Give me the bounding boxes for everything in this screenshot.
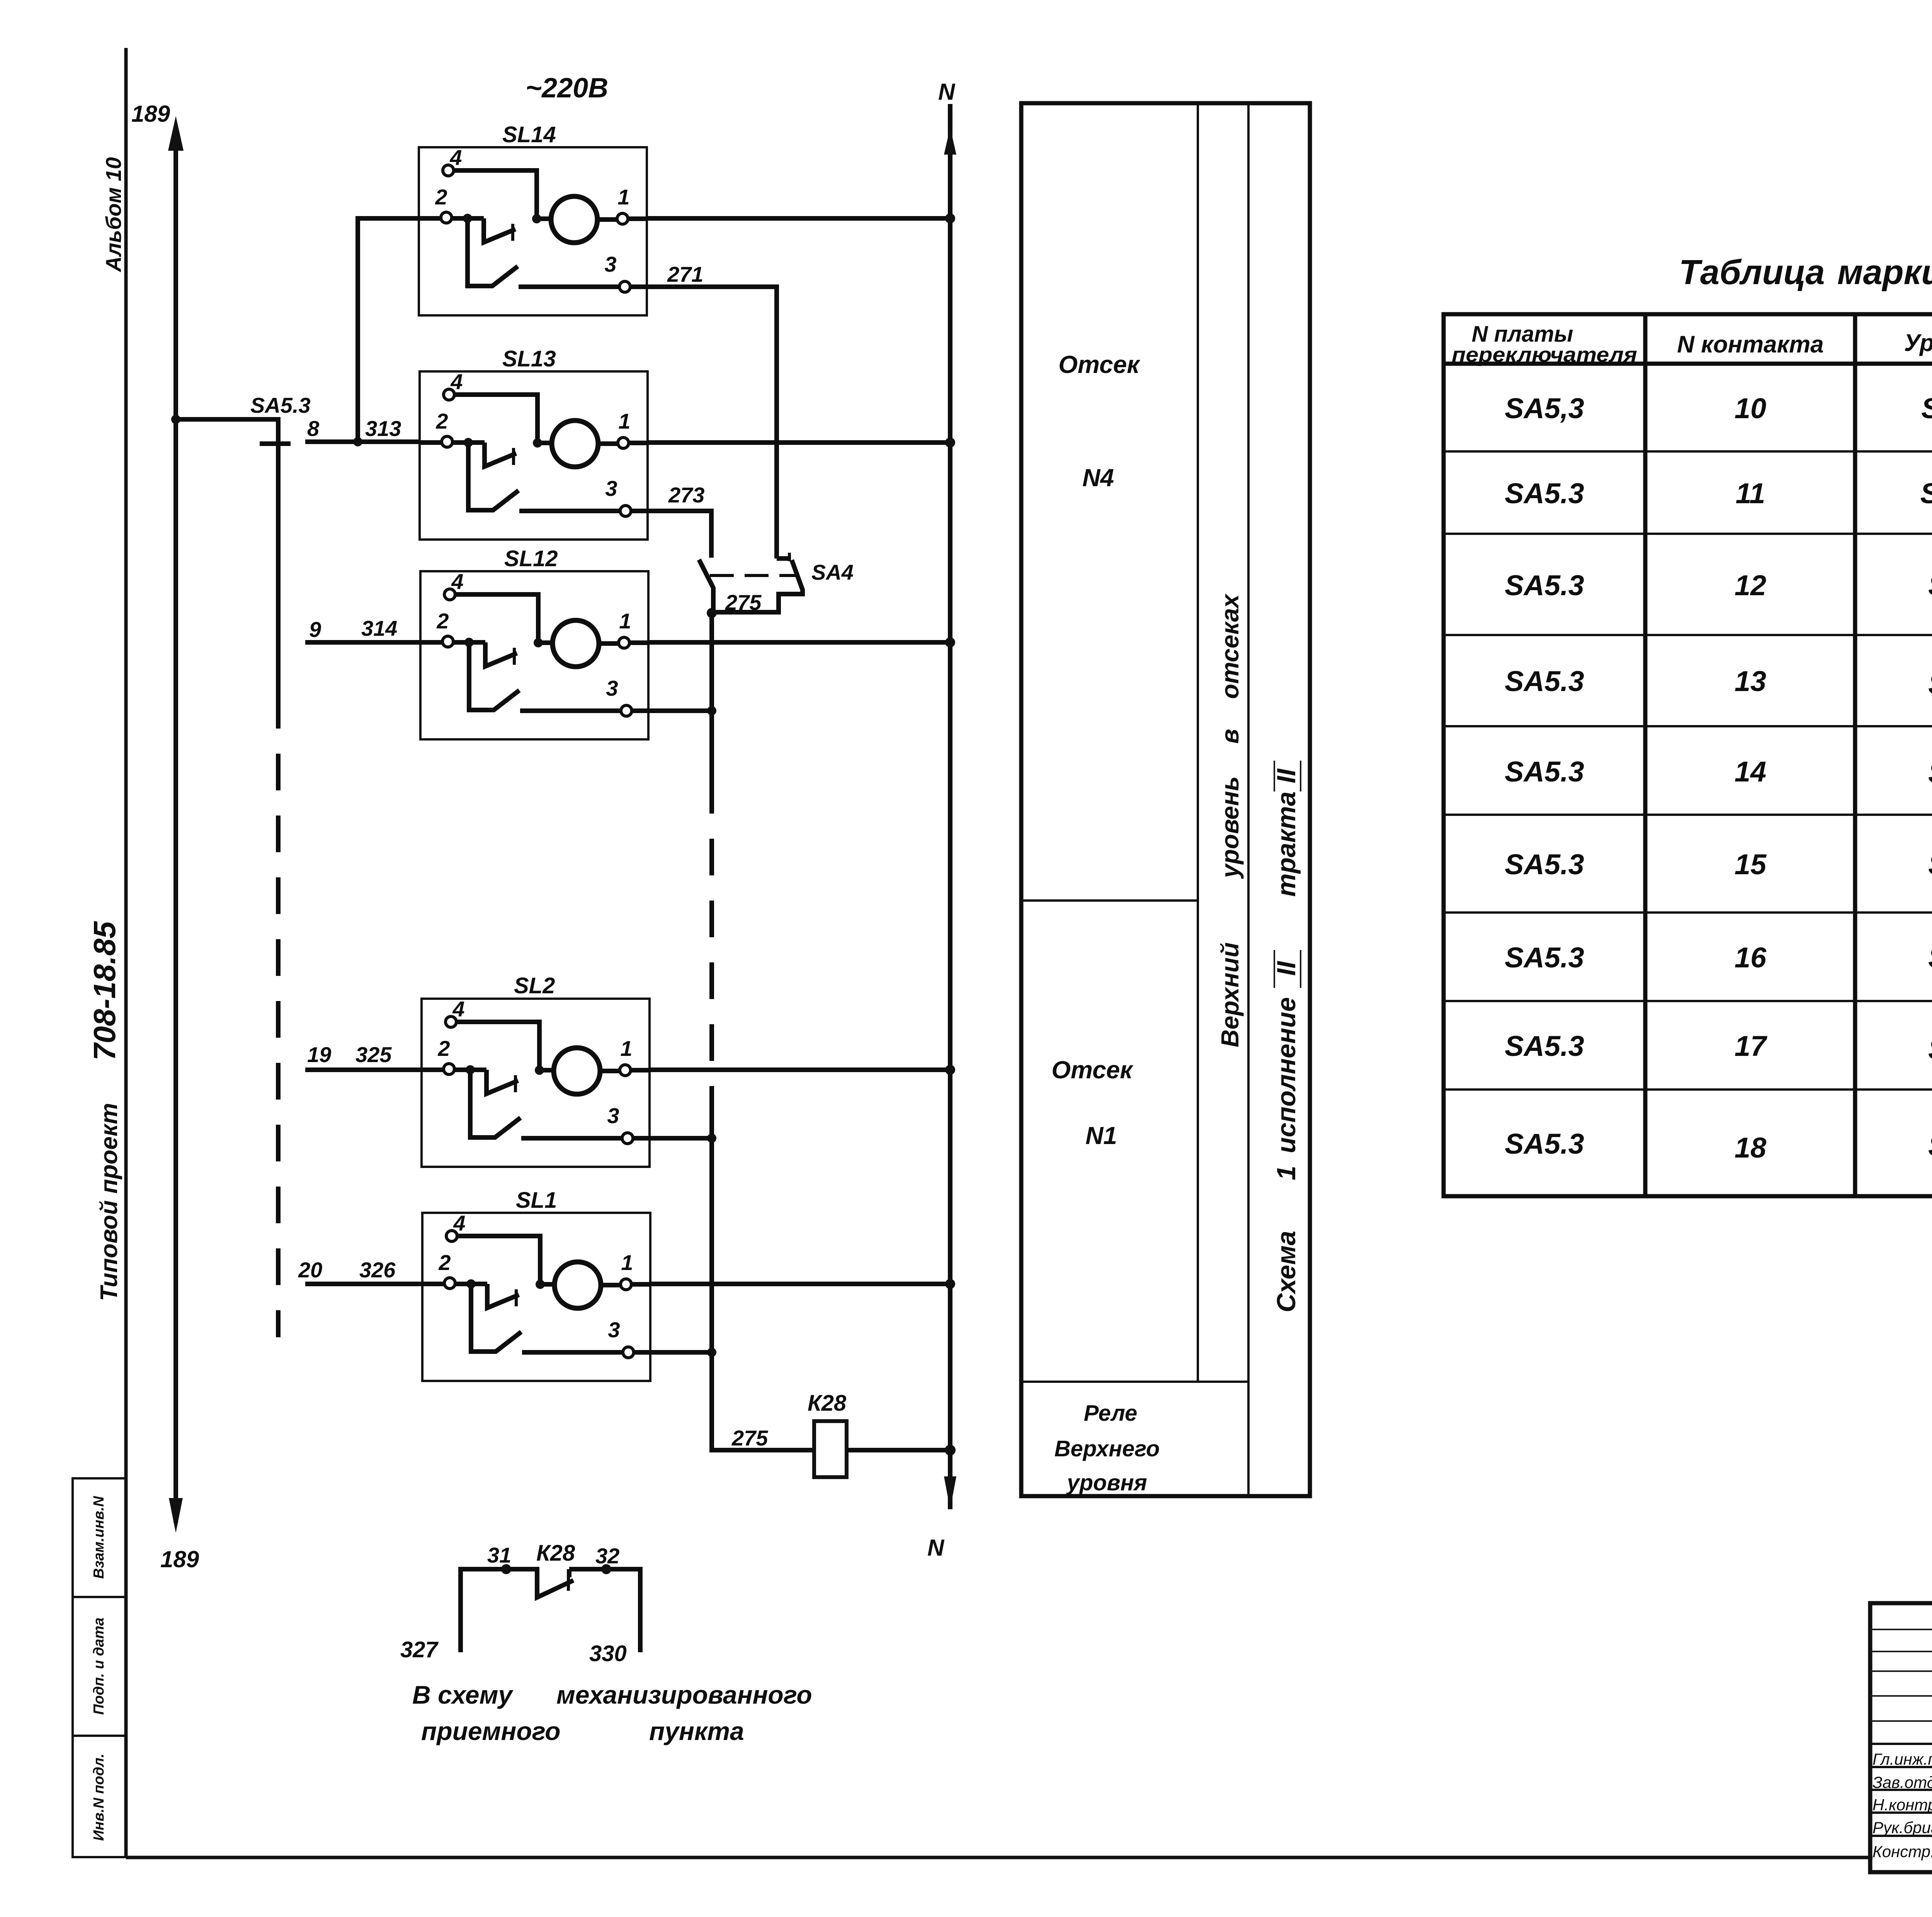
node 275	[707, 608, 717, 618]
svg-text:В схему: В схему	[412, 1680, 514, 1709]
svg-text:SL3: SL3	[1928, 1130, 1932, 1162]
lamp unit SL1	[422, 1188, 950, 1381]
arrow down	[169, 1498, 183, 1533]
wiper bar	[260, 441, 291, 446]
svg-text:SA5.3: SA5.3	[1505, 1128, 1584, 1160]
junction SL12 pin3	[707, 706, 716, 715]
svg-text:Гл.инж.пр.: Гл.инж.пр.	[1872, 1750, 1932, 1768]
svg-text:SL1: SL1	[516, 1188, 557, 1213]
svg-text:отсеках: отсеках	[1216, 593, 1244, 699]
svg-text:15: 15	[1735, 848, 1767, 880]
svg-text:189: 189	[131, 101, 170, 127]
svg-text:Верхнего: Верхнего	[1054, 1436, 1160, 1461]
svg-text:Альбом 10: Альбом 10	[101, 157, 126, 273]
svg-text:Констр.от.Фактурович: Констр.от.Фактурович	[1872, 1842, 1932, 1861]
svg-text:275: 275	[731, 1426, 768, 1450]
svg-text:SA4: SA4	[811, 560, 854, 584]
svg-text:II: II	[1272, 960, 1301, 976]
coupling dashes	[710, 574, 797, 577]
junction to SA5.3	[171, 415, 180, 424]
frame bottom border	[126, 1856, 1872, 1859]
svg-text:уровня: уровня	[1066, 1470, 1147, 1495]
left blade	[699, 560, 713, 612]
svg-text:SL11: SL11	[1921, 392, 1932, 424]
svg-text:Типовой проект: Типовой проект	[96, 1103, 122, 1301]
numeral marks	[1274, 761, 1301, 988]
svg-text:Уровень: Уровень	[1904, 330, 1932, 356]
svg-text:в: в	[1216, 729, 1244, 744]
right jog and tick	[777, 556, 789, 561]
divider otsek4 / otsek1	[1021, 899, 1198, 902]
divider otsek1 / rele	[1021, 1381, 1248, 1383]
svg-text:тракта: тракта	[1272, 792, 1301, 897]
svg-text:313: 313	[365, 416, 401, 441]
svg-text:Подп. и дата: Подп. и дата	[91, 1617, 107, 1715]
header bottom	[1444, 362, 1932, 366]
svg-text:Реле: Реле	[1084, 1401, 1137, 1426]
svg-text:N1: N1	[1085, 1122, 1117, 1149]
lamp unit SL14	[419, 122, 950, 315]
svg-text:11: 11	[1736, 477, 1765, 509]
arrow up	[168, 116, 184, 151]
svg-text:271: 271	[667, 262, 703, 286]
svg-text:Рук.бриг.: Рук.бриг.	[1872, 1818, 1932, 1837]
svg-text:~220В: ~220В	[526, 73, 608, 104]
column line 2	[1247, 103, 1250, 1496]
svg-text:Таблица: Таблица	[1679, 253, 1825, 292]
svg-text:SA5,3: SA5,3	[1505, 392, 1584, 424]
svg-text:31: 31	[487, 1543, 511, 1567]
relay coil K28	[808, 1391, 956, 1477]
wire 325 (tap 19)	[305, 1042, 422, 1070]
svg-text:19: 19	[307, 1042, 331, 1067]
svg-text:N4: N4	[1082, 464, 1114, 492]
compartment chart (Otsek N4 / N1 / relay)	[1021, 103, 1310, 1496]
stamp cell 1	[73, 1478, 126, 1597]
svg-text:SL12: SL12	[504, 546, 558, 571]
svg-text:SL10: SL10	[1920, 477, 1932, 509]
stamp cell 3	[73, 1736, 126, 1857]
svg-text:исполнение: исполнение	[1272, 997, 1301, 1153]
svg-text:SA5.3: SA5.3	[1505, 941, 1584, 974]
svg-text:N контакта: N контакта	[1677, 331, 1823, 358]
svg-text:SL4: SL4	[1928, 1033, 1932, 1065]
svg-text:314: 314	[361, 616, 397, 640]
svg-text:Отсек: Отсек	[1058, 351, 1141, 378]
svg-text:SA5.3: SA5.3	[1505, 1030, 1584, 1062]
svg-text:12: 12	[1735, 569, 1766, 601]
svg-text:17: 17	[1735, 1030, 1768, 1062]
svg-text:механизированного: механизированного	[556, 1680, 812, 1709]
stamp cell 2	[73, 1597, 126, 1736]
svg-text:326: 326	[359, 1258, 396, 1282]
svg-text:уровень: уровень	[1216, 776, 1244, 879]
svg-text:Взам.инв.N: Взам.инв.N	[91, 1496, 107, 1579]
svg-text:708-18.85: 708-18.85	[87, 921, 122, 1061]
svg-text:9: 9	[309, 617, 321, 642]
svg-text:II: II	[1272, 768, 1301, 783]
output to N	[647, 216, 950, 221]
svg-text:SA5.3: SA5.3	[1505, 477, 1584, 509]
svg-text:переключателя: переключателя	[1452, 343, 1637, 366]
svg-text:Схема: Схема	[1272, 1231, 1301, 1312]
column line 1	[1197, 103, 1199, 1382]
svg-text:SA5.3: SA5.3	[1505, 665, 1584, 697]
svg-text:20: 20	[298, 1258, 322, 1282]
svg-text:275: 275	[725, 590, 762, 615]
svg-text:SL9: SL9	[1928, 569, 1932, 601]
svg-text:Отсек: Отсек	[1051, 1056, 1134, 1084]
contact K28 (to remote circuit, wires 327/330)	[400, 1541, 812, 1745]
svg-text:327: 327	[400, 1637, 439, 1662]
left margin stamps	[73, 157, 126, 1857]
svg-text:Зав.отд.: Зав.отд.	[1872, 1773, 1932, 1791]
svg-text:Инв.N подл.: Инв.N подл.	[91, 1754, 107, 1841]
left part rows	[1870, 1629, 1932, 1721]
svg-text:приемного: приемного	[421, 1717, 561, 1745]
svg-text:К28: К28	[536, 1541, 575, 1566]
svg-text:16: 16	[1735, 941, 1767, 974]
frame left border	[124, 48, 128, 1857]
svg-text:13: 13	[1735, 665, 1766, 697]
feeder to switch	[176, 419, 278, 692]
switch SA4	[699, 553, 854, 618]
svg-text:маркировок: маркировок	[1837, 253, 1932, 292]
svg-text:1: 1	[1272, 1166, 1301, 1180]
svg-text:273: 273	[668, 483, 704, 507]
dashed continuation	[276, 692, 281, 1337]
svg-text:N: N	[938, 79, 956, 105]
marking table data cells	[1505, 390, 1932, 1164]
svg-text:SL13: SL13	[502, 346, 556, 371]
wire 189 vertical	[173, 128, 178, 1523]
svg-text:SL14: SL14	[502, 122, 556, 147]
switch SA5.3	[176, 393, 311, 1337]
junction SL1 pin3	[707, 1348, 716, 1357]
svg-text:пункта: пункта	[649, 1717, 744, 1745]
svg-text:SL5: SL5	[1928, 941, 1932, 974]
wire 313 (tap 8)	[305, 218, 420, 446]
svg-text:8: 8	[307, 416, 320, 441]
wire 273	[648, 483, 711, 558]
right blade	[714, 560, 803, 612]
svg-text:Н.контр.: Н.контр.	[1872, 1796, 1932, 1814]
svg-text:SA5.3: SA5.3	[250, 393, 311, 417]
wire 271	[647, 262, 777, 558]
lamp unit SL13	[420, 346, 950, 540]
svg-text:18: 18	[1735, 1132, 1767, 1164]
svg-text:10: 10	[1735, 392, 1766, 424]
marking table	[1444, 253, 1932, 1196]
svg-text:SL6: SL6	[1928, 848, 1932, 880]
wire 314 (tap 9)	[305, 616, 420, 642]
bus N	[927, 79, 956, 1561]
wire 189	[131, 101, 199, 1572]
svg-text:14: 14	[1735, 756, 1766, 788]
riser from SL14	[358, 218, 419, 442]
lamp unit SL12	[420, 546, 950, 739]
svg-text:189: 189	[160, 1546, 199, 1572]
svg-text:Верхний: Верхний	[1216, 942, 1244, 1047]
svg-text:SA5.3: SA5.3	[1505, 569, 1584, 601]
svg-text:SL7: SL7	[1928, 757, 1932, 789]
svg-text:К28: К28	[808, 1391, 847, 1416]
wire 275	[648, 613, 814, 1450]
svg-text:N: N	[927, 1535, 945, 1561]
lamp unit SL2	[422, 973, 950, 1167]
wire 326 (tap 20)	[298, 1258, 422, 1284]
svg-text:325: 325	[355, 1042, 392, 1067]
row lines	[1444, 451, 1932, 1090]
svg-text:SL2: SL2	[514, 973, 555, 998]
junction SL2 pin3	[707, 1134, 716, 1143]
svg-text:SL8: SL8	[1928, 668, 1932, 700]
svg-text:SA5.3: SA5.3	[1505, 848, 1584, 880]
column lines	[1645, 314, 1932, 1196]
svg-text:330: 330	[589, 1641, 627, 1666]
svg-text:SA5.3: SA5.3	[1505, 756, 1584, 788]
title block	[1870, 1603, 1932, 1874]
